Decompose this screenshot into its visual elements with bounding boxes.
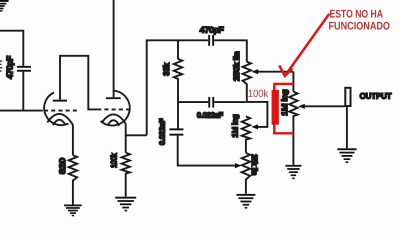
svg-text:1M log: 1M log — [280, 90, 289, 116]
triode V1 envelope — [44, 93, 68, 126]
wiper 25k (from left) — [235, 163, 242, 168]
svg-text:33k: 33k — [162, 62, 171, 76]
triode V2 plate — [106, 97, 121, 99]
wire treble bottom node to 1M wiper — [246, 102, 268, 127]
wire C1 to grid — [22, 72, 24, 111]
resistor 820 — [69, 155, 77, 204]
capacitor 470pF (tone, horizontal) — [208, 35, 214, 46]
ground under 100k — [115, 197, 136, 212]
resistor 33k — [174, 40, 182, 129]
red arrow — [279, 14, 329, 76]
triode V2 grid (dashed) — [97, 108, 130, 110]
wire cathode junction to follower rail — [126, 134, 147, 136]
potentiometer 1M log (right) — [289, 92, 297, 165]
resistor 100k — [122, 153, 130, 197]
svg-text:0.022uF: 0.022uF — [197, 111, 224, 120]
svg-text:ESTO NO HA: ESTO NO HA — [330, 8, 384, 20]
triode V1 plate — [53, 100, 67, 102]
svg-text:250k lin: 250k lin — [232, 52, 241, 82]
triode V2 cathode — [102, 114, 126, 123]
wire jack to ground — [346, 106, 348, 148]
wire 0.022uF bottom to 25k wiper — [178, 136, 236, 166]
partial clipped label at left edge — [0, 60, 2, 71]
wiper 250k — [252, 69, 259, 74]
svg-text:100k: 100k — [109, 153, 118, 168]
wire V1 plate to V2 grid bridge — [60, 56, 97, 110]
ground under 1M log — [285, 165, 301, 179]
svg-text:470pF: 470pF — [6, 56, 15, 79]
red annotation group — [272, 14, 330, 134]
output jack — [345, 88, 350, 106]
potentiometer 25k lin — [242, 153, 250, 194]
wire 470pF to treble pot — [214, 40, 247, 61]
potentiometer 1M log (left) — [242, 116, 250, 152]
wire V2 cathode lead — [124, 123, 127, 153]
ground under 25k — [236, 194, 255, 209]
potentiometer 250k lin — [243, 62, 251, 101]
svg-text:OUTPUT: OUTPUT — [360, 91, 392, 100]
svg-text:820: 820 — [58, 157, 67, 174]
wire 33k mid tap right — [178, 101, 208, 103]
wire input top rail — [0, 31, 23, 66]
capacitor 0.022uF (horizontal) — [208, 97, 214, 108]
wire red parallel connection — [274, 84, 293, 133]
wire V1 cathode lead — [71, 122, 73, 155]
svg-text:0.022uF: 0.022uF — [157, 118, 166, 145]
svg-text:100k: 100k — [248, 88, 269, 100]
ground under jack — [337, 148, 356, 163]
wire V2 plate to B+ (top edge) — [113, 0, 115, 97]
chassis ground hatch (top-left, cut off) — [0, 0, 9, 12]
triode V2 envelope — [101, 91, 130, 126]
wire to volume pot — [292, 72, 294, 92]
svg-text:1M log: 1M log — [230, 115, 239, 138]
resistor 100k (red, added) — [272, 90, 279, 125]
wire grid V1 (from left edge) — [0, 110, 43, 112]
capacitor C1 470pF (input, vertical) — [17, 66, 31, 72]
wire 0.022uF to node — [214, 101, 246, 103]
wiper 1M log right — [298, 104, 305, 109]
triode V1 grid (dashed) — [44, 110, 78, 112]
svg-text:25k lin: 25k lin — [250, 154, 259, 175]
capacitor 0.022uF (vertical) — [169, 128, 183, 135]
svg-text:FUNCIONADO: FUNCIONADO — [329, 20, 391, 32]
triode V1 cathode — [47, 114, 71, 123]
ground under 820 — [64, 205, 82, 217]
wire follower rail up and right — [147, 40, 208, 135]
svg-text:470pF: 470pF — [200, 25, 224, 34]
